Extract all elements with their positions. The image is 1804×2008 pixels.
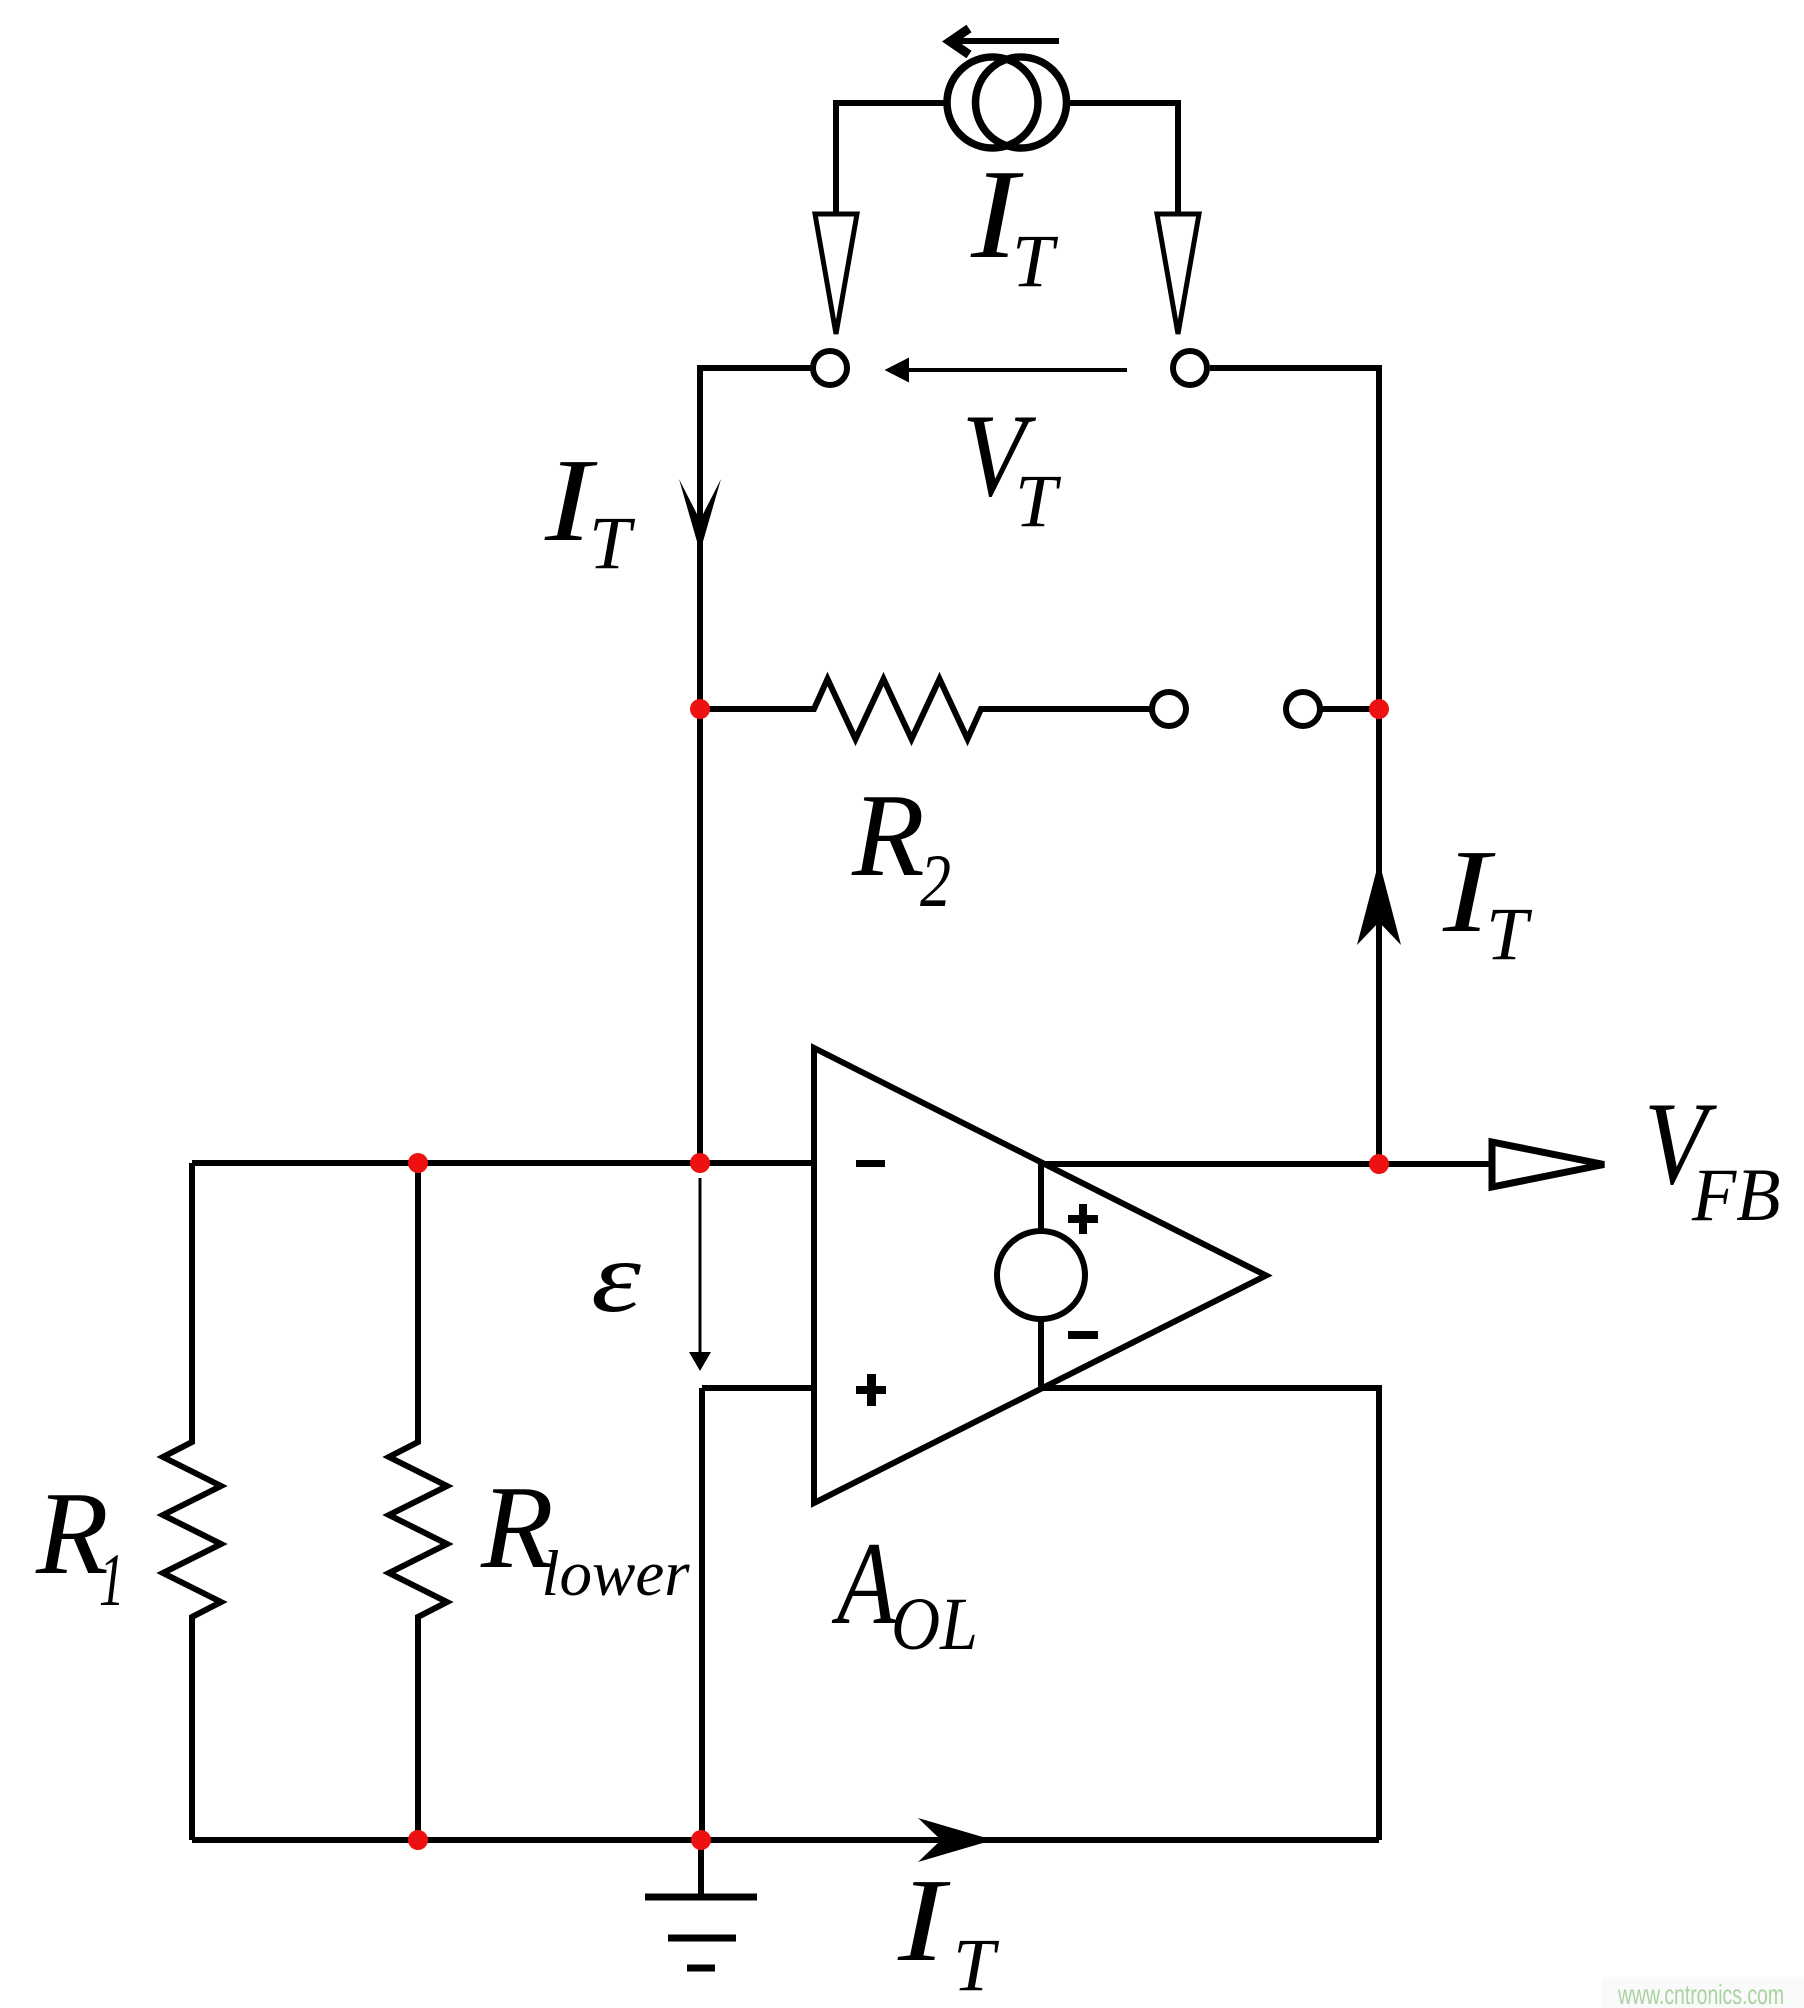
svg-text:A: A bbox=[831, 1517, 897, 1649]
svg-text:T: T bbox=[1015, 460, 1062, 543]
svg-text:T: T bbox=[1012, 220, 1059, 303]
svg-text:R: R bbox=[851, 769, 925, 901]
svg-text:ε: ε bbox=[591, 1221, 642, 1334]
svg-text:lower: lower bbox=[542, 1538, 691, 1610]
svg-text:T: T bbox=[589, 502, 636, 585]
svg-text:www.cntronics.com: www.cntronics.com bbox=[1617, 1979, 1784, 2008]
svg-text:R: R bbox=[35, 1467, 109, 1599]
svg-text:I: I bbox=[897, 1854, 952, 1986]
svg-text:2: 2 bbox=[920, 840, 951, 923]
svg-text:1: 1 bbox=[99, 1539, 125, 1622]
svg-text:FB: FB bbox=[1691, 1154, 1780, 1237]
svg-text:T: T bbox=[953, 1924, 1000, 2007]
svg-text:T: T bbox=[1486, 893, 1533, 976]
svg-text:OL: OL bbox=[891, 1583, 978, 1666]
